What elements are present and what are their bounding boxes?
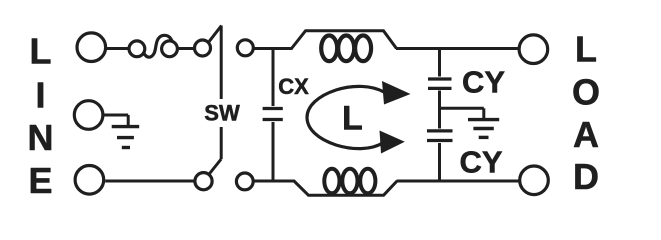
svg-text:O: O [572, 72, 600, 113]
choke L bottom winding turns [324, 169, 375, 194]
capacitor CY1 top lead [438, 49, 441, 77]
switch SW gang bar (upper segment) [220, 26, 223, 100]
wire: breaker to switch pole A [178, 47, 195, 50]
svg-text:L: L [30, 31, 52, 72]
wire: choke to load (bottom rail) [397, 180, 519, 183]
switch SW pole B fixed contact [195, 173, 212, 190]
svg-text:L: L [575, 29, 597, 70]
circuit breaker / fuse element [129, 35, 177, 57]
svg-text:I: I [35, 75, 45, 116]
switch SW gang bar (lower segment) [220, 127, 223, 159]
wire: choke to load (top rail) [396, 47, 519, 50]
svg-text:SW: SW [204, 101, 240, 126]
terminal: LINE hot input [77, 33, 106, 62]
terminal: LINE neutral input [75, 166, 104, 195]
capacitor CY1 [428, 79, 452, 88]
choke L top winding outline [292, 31, 397, 49]
switch SW blade B [210, 159, 222, 174]
svg-text:D: D [573, 156, 599, 197]
capacitor CX bottom lead [272, 122, 275, 181]
label LINE [28, 31, 54, 201]
capacitor CX top lead [272, 49, 275, 107]
switch SW blade A [209, 26, 222, 43]
wire: line hot terminal to breaker [106, 47, 130, 50]
svg-text:N: N [28, 117, 54, 158]
svg-text:E: E [28, 160, 52, 201]
wire: line neutral terminal to switch pole B [105, 180, 195, 183]
choke L bottom winding outline [294, 181, 397, 195]
ground (line side) [103, 115, 140, 148]
common-mode flux arrows around L [307, 81, 411, 154]
terminal: LINE ground [74, 101, 103, 130]
wire: CY midpoint [438, 91, 441, 129]
wire: switch pole B to choke (bottom rail) [253, 180, 295, 183]
ground (load side, CY midpoint) [440, 108, 500, 137]
wire: switch pole A to choke (top rail) [253, 47, 292, 50]
label LOAD [572, 29, 600, 197]
svg-text:CX: CX [278, 74, 309, 99]
capacitor CX [263, 109, 283, 120]
switch SW pole A fixed contact [195, 40, 211, 56]
svg-text:L: L [342, 100, 363, 138]
choke L top winding turns [321, 36, 371, 62]
svg-text:A: A [573, 114, 599, 155]
capacitor CY2 bottom lead [438, 143, 441, 181]
terminal: LOAD hot output [519, 35, 548, 64]
svg-text:CY: CY [459, 145, 502, 180]
capacitor CY2 [427, 131, 453, 141]
switch SW pole B output contact [236, 173, 253, 190]
switch SW pole A output contact [237, 40, 253, 56]
terminal: LOAD neutral output [520, 166, 549, 195]
svg-text:CY: CY [462, 64, 505, 99]
